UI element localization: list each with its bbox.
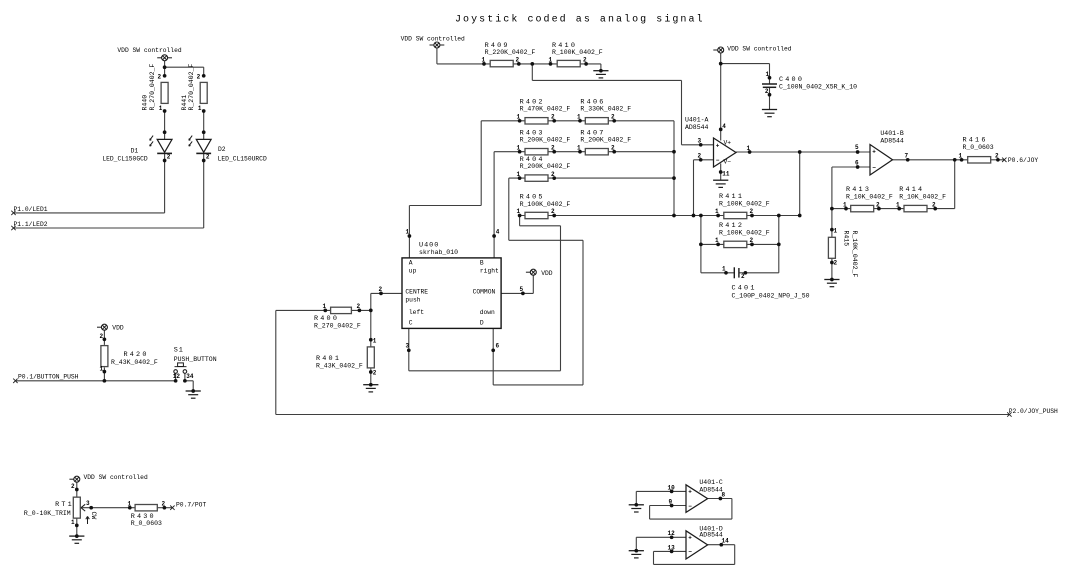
svg-text:2: 2 — [516, 57, 520, 64]
svg-text:11: 11 — [722, 171, 730, 178]
svg-text:VDD SW controlled: VDD SW controlled — [401, 35, 465, 42]
svg-text:Joystick coded as analog signa: Joystick coded as analog signal — [455, 14, 705, 26]
svg-text:−: − — [688, 549, 692, 556]
svg-text:VDD: VDD — [541, 270, 553, 277]
svg-text:2: 2 — [611, 144, 615, 151]
svg-text:R_100K_0402_F: R_100K_0402_F — [552, 49, 603, 56]
svg-text:1: 1 — [577, 144, 581, 151]
svg-text:LED_CL150GCD: LED_CL150GCD — [102, 155, 148, 162]
svg-text:2: 2 — [197, 74, 201, 81]
svg-text:2: 2 — [876, 201, 880, 208]
svg-text:VDD SW controlled: VDD SW controlled — [84, 474, 148, 481]
svg-text:1: 1 — [517, 208, 521, 215]
svg-text:D2: D2 — [218, 146, 226, 153]
svg-text:2: 2 — [551, 208, 555, 215]
svg-text:3: 3 — [698, 138, 702, 145]
svg-text:−: − — [872, 164, 876, 171]
svg-text:1: 1 — [517, 144, 521, 151]
svg-text:skrhab_010: skrhab_010 — [419, 249, 458, 256]
svg-text:1: 1 — [549, 57, 553, 64]
svg-text:R_100K_0402_F: R_100K_0402_F — [719, 201, 770, 208]
svg-text:C401: C401 — [732, 285, 757, 293]
svg-text:B: B — [480, 260, 484, 267]
svg-text:up: up — [409, 268, 417, 275]
svg-text:R_0_0603: R_0_0603 — [131, 520, 162, 527]
svg-text:1: 1 — [715, 208, 719, 215]
svg-text:2: 2 — [100, 333, 104, 340]
svg-text:RT1: RT1 — [55, 501, 74, 509]
svg-text:1: 1 — [323, 303, 327, 310]
svg-text:1: 1 — [722, 266, 726, 273]
svg-text:CW: CW — [90, 512, 97, 520]
svg-text:3: 3 — [86, 500, 90, 507]
svg-text:7: 7 — [905, 153, 909, 160]
svg-text:R_100K_0402_F: R_100K_0402_F — [719, 230, 770, 237]
svg-text:1: 1 — [959, 153, 963, 160]
svg-text:−: − — [688, 503, 692, 510]
svg-text:R_470K_0402_F: R_470K_0402_F — [520, 106, 571, 113]
svg-text:2: 2 — [932, 201, 936, 208]
svg-text:V+: V+ — [724, 139, 732, 146]
svg-text:AD8544: AD8544 — [685, 124, 709, 131]
svg-text:2: 2 — [611, 114, 615, 121]
svg-text:2: 2 — [551, 144, 555, 151]
svg-text:1: 1 — [517, 114, 521, 121]
svg-text:LED_CL150URCD: LED_CL150URCD — [218, 155, 267, 162]
svg-text:R441: R441 — [181, 95, 188, 111]
svg-text:left: left — [409, 309, 424, 316]
svg-text:R_270_0402_F: R_270_0402_F — [149, 64, 156, 111]
svg-text:2: 2 — [379, 286, 383, 293]
svg-text:2: 2 — [158, 74, 162, 81]
svg-text:C: C — [409, 319, 413, 326]
svg-text:4: 4 — [496, 229, 500, 236]
svg-text:R_10K_0402_F: R_10K_0402_F — [846, 193, 893, 200]
svg-text:S1: S1 — [174, 347, 184, 355]
svg-text:R_200K_0402_F: R_200K_0402_F — [520, 163, 571, 170]
svg-text:1: 1 — [747, 145, 751, 152]
svg-text:1: 1 — [715, 237, 719, 244]
svg-text:1: 1 — [843, 201, 847, 208]
svg-text:R_10K_0402_F: R_10K_0402_F — [899, 193, 946, 200]
svg-text:R_200K_0402_F: R_200K_0402_F — [520, 137, 571, 144]
svg-text:R_43K_0402_F: R_43K_0402_F — [111, 359, 158, 366]
svg-text:1: 1 — [517, 171, 521, 178]
svg-text:6: 6 — [855, 160, 859, 167]
svg-text:2: 2 — [551, 171, 555, 178]
svg-text:V−: V− — [724, 159, 732, 166]
svg-text:right: right — [480, 268, 499, 275]
svg-text:2: 2 — [357, 303, 361, 310]
svg-text:P1.1/LED2: P1.1/LED2 — [14, 221, 48, 228]
svg-text:R_0_0603: R_0_0603 — [963, 144, 994, 151]
svg-text:9: 9 — [669, 498, 673, 505]
svg-text:2: 2 — [765, 88, 769, 95]
svg-text:+: + — [872, 149, 876, 156]
svg-text:12: 12 — [173, 373, 181, 380]
svg-text:P0.1/BUTTON_PUSH: P0.1/BUTTON_PUSH — [18, 374, 79, 381]
svg-text:A: A — [409, 260, 413, 267]
svg-text:R_220K_0402_F: R_220K_0402_F — [485, 49, 536, 56]
svg-text:R440: R440 — [142, 95, 149, 111]
svg-text:4: 4 — [722, 123, 726, 130]
svg-text:C_100P_0402_NP0_J_50: C_100P_0402_NP0_J_50 — [732, 292, 810, 299]
svg-text:1: 1 — [482, 57, 486, 64]
svg-text:2: 2 — [750, 208, 754, 215]
svg-text:D1: D1 — [131, 148, 139, 155]
svg-text:COMMON: COMMON — [473, 289, 496, 296]
svg-text:6: 6 — [496, 343, 500, 350]
svg-text:D: D — [480, 319, 484, 326]
svg-text:P0.7/POT: P0.7/POT — [176, 502, 206, 509]
svg-text:34: 34 — [186, 373, 194, 380]
svg-text:+: + — [688, 535, 692, 542]
svg-text:2: 2 — [551, 114, 555, 121]
svg-text:2: 2 — [583, 57, 587, 64]
svg-text:P0.6/JOY: P0.6/JOY — [1008, 157, 1038, 164]
svg-text:U401-A: U401-A — [685, 117, 709, 124]
svg-text:R_100K_0402_F: R_100K_0402_F — [520, 201, 571, 208]
svg-text:AD8544: AD8544 — [699, 486, 723, 493]
svg-text:14: 14 — [722, 537, 730, 544]
svg-text:R_0-10K_TRIM: R_0-10K_TRIM — [24, 510, 71, 517]
svg-text:+: + — [688, 489, 692, 496]
svg-text:12: 12 — [668, 530, 676, 537]
svg-text:R_330K_0402_F: R_330K_0402_F — [580, 106, 631, 113]
svg-text:push: push — [405, 297, 420, 304]
svg-text:1: 1 — [198, 105, 202, 112]
svg-text:1: 1 — [373, 337, 377, 344]
svg-text:+: + — [716, 142, 720, 149]
svg-text:2: 2 — [71, 483, 75, 490]
svg-text:3: 3 — [406, 343, 410, 350]
svg-text:P1.0/LED1: P1.0/LED1 — [14, 206, 48, 213]
svg-text:R_270_0402_F: R_270_0402_F — [188, 64, 195, 111]
svg-text:C_100N_0402_X5R_K_10: C_100N_0402_X5R_K_10 — [779, 83, 857, 90]
svg-text:1: 1 — [766, 71, 770, 78]
svg-text:P2.0/JOY_PUSH: P2.0/JOY_PUSH — [1009, 408, 1058, 415]
svg-text:PUSH_BUTTON: PUSH_BUTTON — [174, 356, 217, 363]
svg-text:13: 13 — [668, 544, 676, 551]
svg-text:1: 1 — [128, 500, 132, 507]
svg-text:R420: R420 — [124, 351, 149, 359]
svg-text:10: 10 — [668, 484, 676, 491]
svg-text:1: 1 — [71, 519, 75, 526]
svg-text:2: 2 — [741, 273, 745, 280]
svg-text:2: 2 — [373, 370, 377, 377]
svg-text:2: 2 — [834, 259, 838, 266]
svg-text:AD8544: AD8544 — [699, 532, 723, 539]
svg-text:U401-B: U401-B — [880, 130, 904, 137]
svg-text:1: 1 — [159, 105, 163, 112]
svg-text:VDD SW controlled: VDD SW controlled — [727, 46, 791, 53]
svg-text:U401-C: U401-C — [699, 479, 723, 486]
svg-text:CENTRE: CENTRE — [405, 289, 428, 296]
svg-text:R_43K_0402_F: R_43K_0402_F — [316, 362, 363, 369]
svg-text:R_270_0402_F: R_270_0402_F — [314, 322, 361, 329]
svg-text:down: down — [480, 309, 495, 316]
svg-text:5: 5 — [520, 286, 524, 293]
svg-text:2: 2 — [698, 153, 702, 160]
svg-text:1: 1 — [896, 201, 900, 208]
svg-text:5: 5 — [855, 144, 859, 151]
svg-text:2: 2 — [750, 237, 754, 244]
svg-text:1: 1 — [834, 228, 838, 235]
svg-text:1: 1 — [577, 114, 581, 121]
svg-text:R415: R415 — [843, 231, 850, 247]
svg-text:VDD SW controlled: VDD SW controlled — [117, 47, 181, 54]
svg-text:2: 2 — [206, 153, 210, 160]
svg-text:AD8544: AD8544 — [880, 138, 904, 145]
svg-text:VDD: VDD — [112, 325, 124, 332]
svg-text:2: 2 — [162, 500, 166, 507]
svg-text:1: 1 — [100, 366, 104, 373]
svg-text:−: − — [716, 157, 720, 164]
svg-text:2: 2 — [995, 153, 999, 160]
svg-text:R_10K_0402_F: R_10K_0402_F — [851, 231, 858, 278]
svg-text:8: 8 — [722, 492, 726, 499]
svg-text:U400: U400 — [419, 241, 439, 249]
svg-text:R_200K_0402_F: R_200K_0402_F — [580, 137, 631, 144]
svg-text:2: 2 — [167, 153, 171, 160]
svg-text:1: 1 — [406, 229, 410, 236]
